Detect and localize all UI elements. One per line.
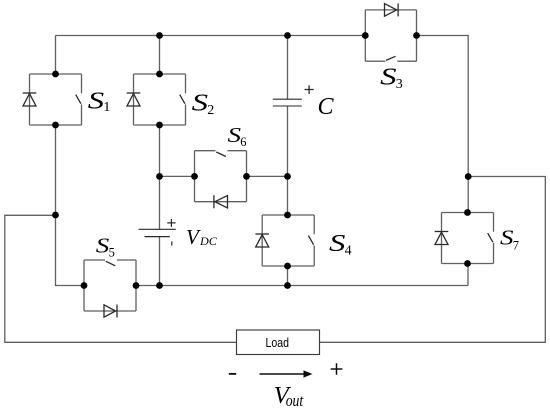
node S3 right terminal	[413, 32, 420, 39]
svg-text:1: 1	[103, 100, 110, 115]
node right column branch	[465, 173, 472, 180]
wire left junction down to S5	[56, 215, 85, 286]
svg-text:S: S	[96, 234, 110, 258]
plus sign of Vout	[331, 363, 343, 375]
svg-text:5: 5	[109, 245, 115, 259]
svg-text:S: S	[192, 91, 208, 117]
svg-text:6: 6	[240, 135, 246, 149]
svg-text:S: S	[500, 225, 514, 249]
wire S3 right to right column	[417, 36, 469, 177]
wire battery to bottom bus	[159, 237, 161, 286]
node S2 top terminal	[156, 71, 163, 78]
wire top bus	[56, 35, 366, 37]
svg-text:S: S	[88, 89, 104, 115]
node S3 left terminal	[362, 32, 369, 39]
switch cell S3: box	[365, 10, 416, 61]
switch blade of S4	[308, 236, 313, 245]
wire C bottom riser	[287, 106, 289, 176]
svg-text:S: S	[228, 123, 242, 147]
wire junction to S4 riser	[287, 176, 289, 215]
node S6 left terminal	[191, 173, 198, 180]
switch blade of S2	[180, 95, 185, 104]
svg-text:S: S	[329, 231, 345, 257]
wire S1 top riser	[55, 36, 57, 75]
switch cell S7: box	[442, 213, 494, 264]
node S4 bottom terminal	[284, 263, 291, 270]
svg-text:3: 3	[396, 77, 403, 92]
svg-text:4: 4	[345, 244, 352, 259]
plus sign of capacitor C	[305, 85, 314, 94]
wire right branch to outer right	[320, 177, 546, 343]
capacitor C	[273, 99, 302, 106]
DC source VDC: plates	[139, 228, 176, 230]
svg-text:7: 7	[513, 238, 519, 252]
switch cell S1: box	[30, 74, 82, 125]
anti-parallel diode of S3	[397, 3, 399, 16]
node S6 right terminal	[243, 173, 250, 180]
node battery riser / S6 left	[156, 173, 163, 180]
node S1 top terminal	[52, 71, 59, 78]
anti-parallel diode of S6	[213, 195, 215, 208]
minus sign of Vout	[229, 373, 236, 375]
svg-text:2: 2	[207, 103, 214, 118]
node S1 bottom terminal	[52, 122, 59, 129]
anti-parallel diode of S2	[127, 92, 141, 94]
wire S2 bottom to battery	[159, 125, 161, 229]
wire C top riser	[287, 36, 289, 100]
wire S6 right lead	[247, 175, 288, 177]
minus tick of VDC	[171, 241, 173, 245]
node S4 top terminal	[284, 212, 291, 219]
switch blade of S7	[488, 233, 493, 242]
svg-text:S: S	[380, 64, 396, 90]
switch blade of S6	[216, 152, 226, 157]
switch blade of S1	[76, 95, 81, 104]
node S7 top terminal	[464, 209, 471, 216]
node left junction A	[52, 212, 59, 219]
wire S1 bottom to left junction	[55, 125, 57, 215]
node S5 right terminal	[133, 282, 140, 289]
svg-text:out: out	[286, 391, 304, 410]
svg-text:DC: DC	[199, 234, 218, 248]
node S7 bottom terminal	[464, 260, 471, 267]
wire S7 bottom lead	[467, 264, 469, 286]
node C riser / S6 right / S4	[284, 173, 291, 180]
svg-text:V: V	[186, 225, 201, 249]
plus sign of VDC	[167, 219, 175, 227]
anti-parallel diode of S5	[116, 305, 118, 318]
svg-text:C: C	[318, 94, 335, 120]
anti-parallel diode of S4	[255, 233, 269, 235]
wire S2 top riser	[159, 36, 161, 75]
switch blade of S3	[386, 56, 396, 60]
wire left junction to outer left loop	[5, 215, 237, 342]
switch cell S2: box	[134, 74, 186, 125]
Vout arrow	[260, 373, 305, 375]
node top bus / C riser	[284, 32, 291, 39]
switch blade of S5	[106, 261, 116, 266]
switch cell S4: box	[262, 215, 314, 266]
wire S4 bottom lead	[287, 266, 289, 286]
wire bottom bus	[136, 285, 468, 287]
svg-text:Load: Load	[266, 335, 290, 350]
load box	[237, 330, 320, 355]
node top bus / S2 riser	[156, 32, 163, 39]
node S5 left terminal	[81, 282, 88, 289]
anti-parallel diode of S1	[23, 92, 37, 94]
wire S6 left lead	[160, 175, 195, 177]
node battery / bottom bus	[156, 282, 163, 289]
switch cell S5: box	[84, 260, 136, 311]
node S2 bottom terminal	[156, 122, 163, 129]
anti-parallel diode of S7	[435, 231, 449, 233]
node S4 riser / bottom bus	[284, 282, 291, 289]
wire right column to S7	[467, 177, 469, 213]
switch cell S6: box	[195, 151, 247, 202]
